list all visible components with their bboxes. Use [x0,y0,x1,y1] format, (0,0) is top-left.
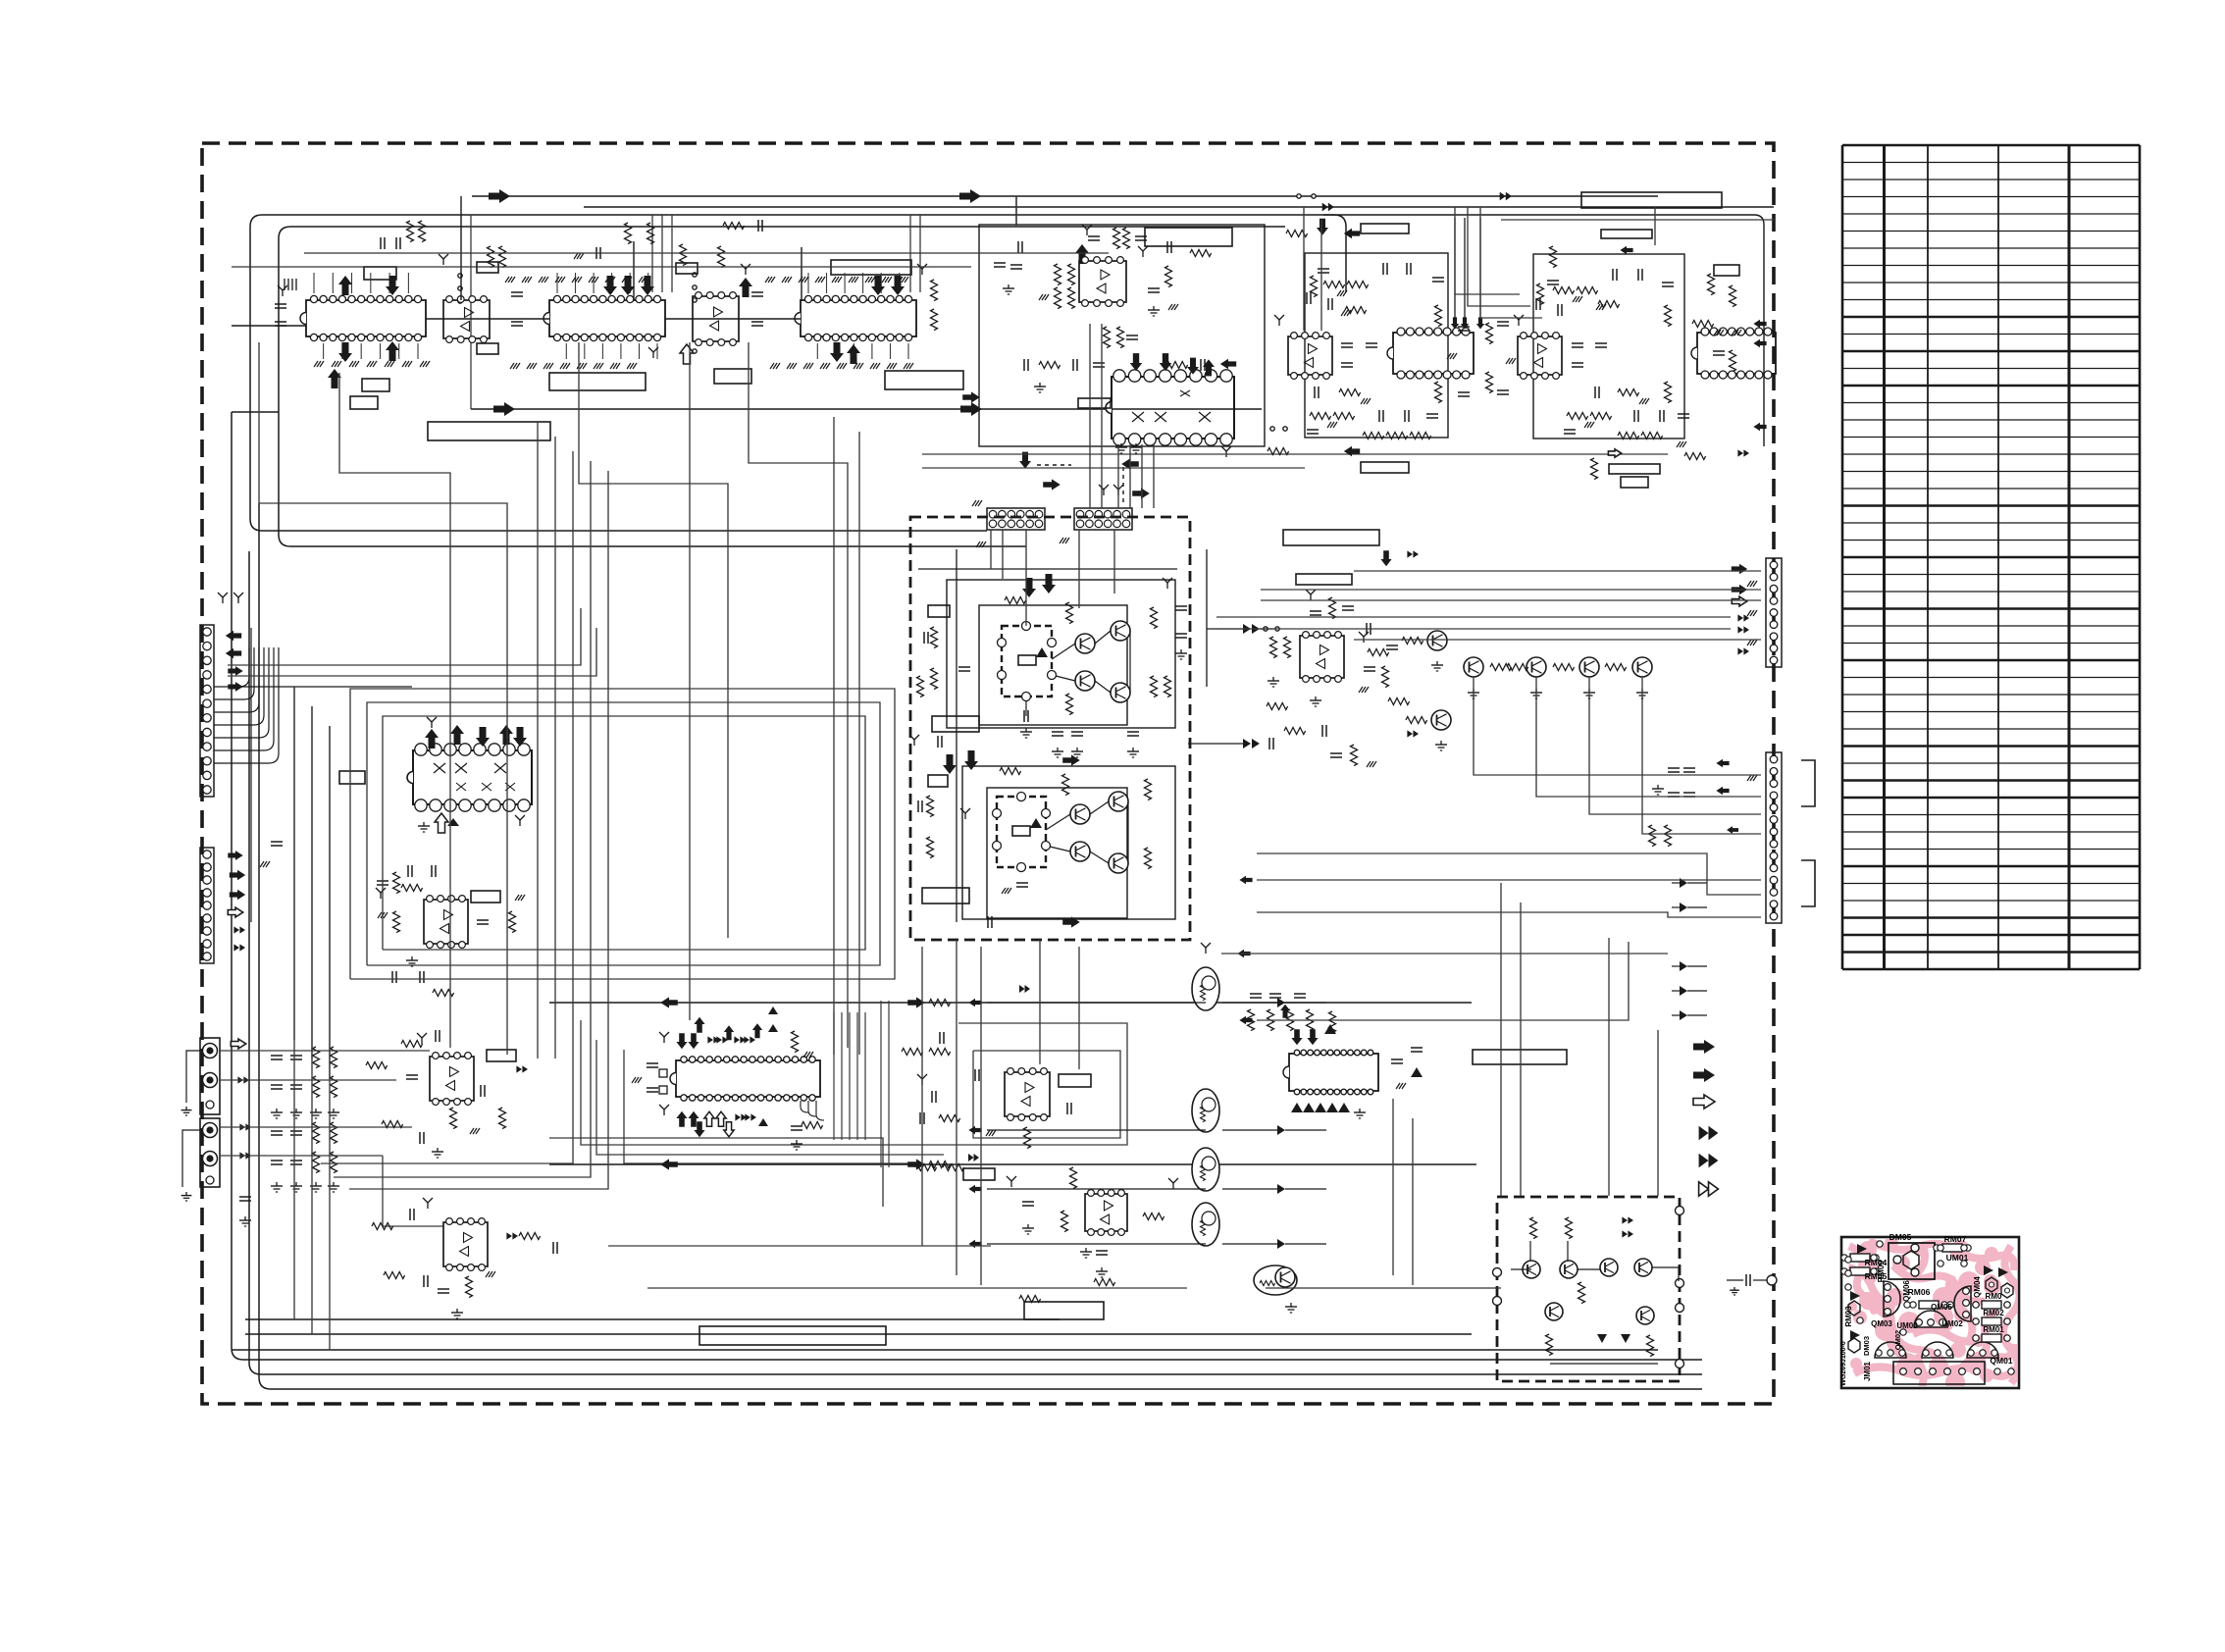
svg-text:RM01: RM01 [1983,1325,2004,1334]
svg-text:WG269J100-0: WG269J100-0 [1840,1341,1847,1386]
svg-text:RM09: RM09 [1876,1260,1886,1282]
svg-text:DM03: DM03 [1862,1336,1871,1356]
svg-text:RM07: RM07 [1944,1234,1967,1244]
svg-text:QM05: QM05 [1931,1303,1952,1312]
svg-text:RM03: RM03 [1844,1306,1853,1327]
svg-text:QM03: QM03 [1871,1319,1892,1328]
svg-text:UM01: UM01 [1946,1253,1969,1263]
svg-text:QM04: QM04 [1973,1276,1982,1298]
svg-text:RM02: RM02 [1983,1309,2004,1317]
svg-text:RM0: RM0 [1986,1292,2002,1301]
svg-text:RM06: RM06 [1908,1287,1931,1297]
svg-text:JM01: JM01 [1863,1361,1872,1381]
svg-text:QM06: QM06 [1902,1280,1911,1302]
svg-text:UM03: UM03 [1896,1321,1918,1330]
svg-text:UM02: UM02 [1941,1319,1963,1328]
svg-text:DM05: DM05 [1889,1232,1912,1242]
svg-text:QM01: QM01 [1990,1356,2012,1366]
svg-text:QM02: QM02 [1893,1330,1902,1350]
